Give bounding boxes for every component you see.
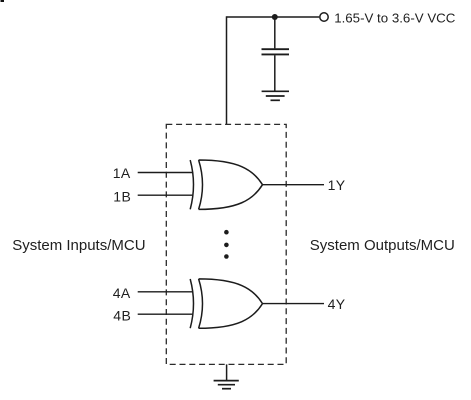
wire output 4Y — [263, 303, 325, 305]
IC package outline (dashed) — [166, 124, 286, 364]
svg-text:4B: 4B — [113, 308, 131, 324]
wire input 1A — [138, 172, 193, 174]
svg-text:4A: 4A — [113, 285, 131, 301]
XOR gate U1D — [190, 279, 262, 328]
node junction dot — [272, 14, 278, 20]
wire input 1B — [138, 194, 193, 196]
ground (package) — [214, 381, 239, 389]
continuation dots — [224, 230, 229, 259]
wire VCC vertical to package — [226, 16, 228, 124]
svg-text:4Y: 4Y — [328, 296, 346, 312]
wire output 1Y — [263, 184, 325, 186]
wire input 4B — [138, 313, 193, 315]
wire ground stem — [226, 364, 228, 380]
wire input 4A — [138, 291, 193, 293]
wire capacitor bottom — [274, 55, 276, 90]
svg-text:1.65-V to 3.6-V VCC: 1.65-V to 3.6-V VCC — [334, 10, 456, 25]
svg-text:1B: 1B — [113, 189, 131, 205]
capacitor C1 — [262, 49, 290, 54]
svg-text:System Outputs/MCU: System Outputs/MCU — [310, 237, 455, 254]
stray ink mark — [1, 0, 5, 2]
wire capacitor top — [274, 17, 276, 48]
XOR gate U1A — [190, 160, 262, 209]
wire VCC horizontal — [227, 16, 320, 18]
ground (capacitor) — [262, 91, 289, 100]
svg-text:1Y: 1Y — [328, 177, 346, 193]
svg-text:1A: 1A — [113, 165, 131, 181]
VCC terminal circle — [320, 13, 328, 21]
svg-text:System Inputs/MCU: System Inputs/MCU — [12, 237, 145, 254]
